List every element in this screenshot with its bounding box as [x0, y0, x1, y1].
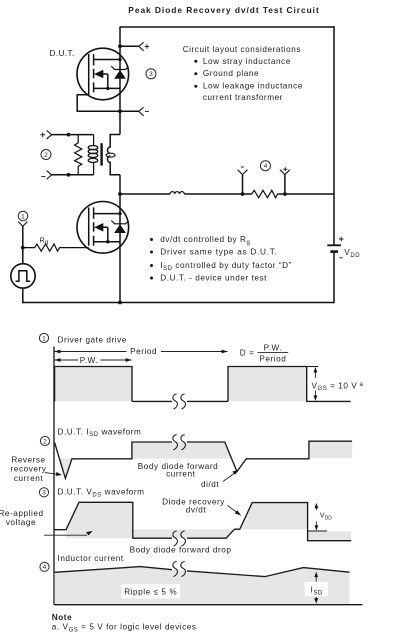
waveform 1 circled label: [39, 333, 48, 342]
label - of battery: [339, 257, 342, 259]
node dot gate drive: [21, 246, 25, 250]
wire T1 primary pass-through jog: [107, 135, 120, 175]
waveform 1 pulse 1 fill: [55, 367, 132, 402]
wire pulse generator to ground rail: [21, 288, 24, 303]
node dot Q2 source junction: [106, 240, 109, 243]
battery VDD plate short: [330, 250, 338, 253]
waveform 1 pulse 2 outline: [228, 367, 351, 402]
wire node2 minus lead: [52, 174, 94, 176]
node dot Q1 drain junction: [118, 58, 121, 61]
pulse generator glyph: [16, 271, 31, 282]
waveform 4 baseline: [54, 604, 362, 606]
waveform 1 pulse 2 fill: [228, 367, 307, 402]
label ISD box: [305, 582, 328, 596]
svg-text:2: 2: [43, 438, 47, 445]
node dot middle rail tee: [118, 192, 122, 196]
transistor Q2 body arrowhead: [94, 223, 103, 232]
transistor Q1 source connection: [94, 87, 120, 89]
node dot Q1 source junction: [106, 87, 109, 90]
svg-text:VDD: VDD: [344, 248, 360, 259]
svg-text:di/dt: di/dt: [201, 480, 219, 489]
svg-text:Re-applied: Re-applied: [0, 509, 44, 518]
node 2 circled label: [41, 150, 51, 160]
terminal arrowhead minus (node 2): [47, 171, 52, 180]
svg-text:Body diode forward drop: Body diode forward drop: [130, 546, 232, 555]
svg-text:ISD controlled by duty factor: ISD controlled by duty factor “D”: [160, 261, 292, 272]
wire middle rail: [120, 193, 334, 195]
svg-text:Period: Period: [130, 347, 157, 356]
svg-text:current transformer: current transformer: [203, 93, 283, 102]
waveform 3 circled label: [39, 488, 48, 497]
wire main vertical below transformer: [119, 175, 121, 303]
waveform 3 second plateau fill: [240, 503, 308, 530]
svg-text:Low leakage inductance: Low leakage inductance: [203, 82, 303, 91]
wire right rail upper: [333, 26, 335, 244]
node dot driver source on bottom rail: [118, 301, 122, 305]
terminal arrowhead plus (node 3): [139, 42, 144, 51]
waveform 4 trace: [55, 567, 350, 577]
waveform 2 trace: [55, 441, 353, 478]
diode D2 cathode bar: [111, 221, 128, 224]
svg-text:recovery: recovery: [11, 465, 47, 474]
transistor Q1 channel segments: [93, 54, 95, 92]
transistor Q1 body connection with arrow: [98, 74, 108, 88]
probe minus arrowhead: [238, 170, 248, 175]
probe minus branch of node 4: [242, 175, 244, 194]
transistor Q1 gate line: [88, 54, 90, 92]
svg-text:Rg: Rg: [40, 235, 49, 246]
label + of node 4 probe: [283, 167, 287, 171]
inductor T1 secondary winding leads: [93, 135, 95, 175]
resistor burden (vertical): [75, 135, 82, 175]
svg-text:Ripple ≤ 5 %: Ripple ≤ 5 %: [124, 587, 177, 596]
break marks waveform 3: [173, 531, 186, 546]
inductor L1 on middle rail: [170, 192, 184, 194]
svg-text:Peak Diode Recovery dv/dt Test: Peak Diode Recovery dv/dt Test Circuit: [128, 5, 319, 15]
break marks waveform 2: [173, 435, 186, 450]
svg-text:Driver same type as D.U.T.: Driver same type as D.U.T.: [160, 248, 277, 257]
waveform 2 main band fill: [132, 442, 231, 459]
break marks waveform 4: [173, 562, 186, 577]
break marks waveform 1: [173, 394, 186, 409]
label - of node 4 probe: [241, 166, 244, 168]
waveform 4 fill: [55, 567, 350, 605]
waveform 2 circled label: [40, 436, 49, 445]
transformer T1 core bar: [100, 143, 102, 165]
label + of node 3 terminal: [145, 44, 149, 48]
waveform 2 right block fill: [309, 441, 352, 458]
label + of node 2 terminal: [40, 132, 45, 137]
probe plus branch of node 4: [284, 175, 286, 194]
transistor Q1 drain connection: [94, 59, 120, 61]
wire gate drive vertical: [22, 226, 24, 263]
svg-text:VGS = 10 V a: VGS = 10 V a: [312, 381, 364, 392]
svg-text:Reverse: Reverse: [11, 455, 45, 464]
waveform 1 VGS reference tick: [307, 366, 319, 368]
svg-text:Period: Period: [259, 355, 286, 364]
svg-text:a. VGS = 5 V for logic level d: a. VGS = 5 V for logic level devices: [52, 623, 197, 634]
svg-text:D.U.T.: D.U.T.: [50, 49, 75, 58]
dimension Period: [54, 351, 228, 353]
node dot Q2 drain junction: [118, 212, 121, 215]
diode D1 body diode triangle: [114, 70, 126, 79]
svg-text:3: 3: [149, 71, 153, 78]
label ripple box: [122, 584, 181, 598]
terminal arrowhead plus (node 2): [47, 130, 52, 139]
svg-text:VDD: VDD: [320, 511, 332, 522]
wire bottom rail: [22, 302, 334, 304]
node 3 circled label: [146, 69, 156, 79]
svg-text:1: 1: [21, 213, 25, 220]
waveform 1 pulse 1 outline: [55, 367, 132, 402]
transistor Q1 DUT MOSFET body circle: [77, 48, 129, 100]
svg-text:1: 1: [42, 335, 46, 342]
svg-text:D.U.T. ISD waveform: D.U.T. ISD waveform: [58, 427, 142, 438]
svg-text:Low stray inductance: Low stray inductance: [203, 57, 291, 66]
label + of battery: [339, 237, 344, 242]
diode D2 body diode triangle: [114, 224, 126, 233]
node dot probe plus: [283, 192, 287, 196]
pulse generator source: [11, 264, 35, 288]
resistor Rg: [23, 244, 89, 251]
wire right rail lower: [333, 253, 335, 304]
transistor Q1 body arrowhead: [94, 70, 103, 79]
wire terminal-plus branch of node 3: [120, 45, 139, 47]
node dot gate-source tie: [118, 109, 122, 113]
wire node2 plus lead: [52, 134, 94, 136]
dimension ISD arrow: [315, 576, 317, 600]
svg-text:2: 2: [44, 152, 48, 159]
svg-text:dv/dt: dv/dt: [186, 505, 207, 514]
svg-text:Driver gate drive: Driver gate drive: [58, 336, 127, 345]
label - of node 3 terminal: [145, 110, 149, 112]
transistor Q2 body connection with arrow: [98, 227, 108, 241]
svg-text:P.W.: P.W.: [80, 356, 98, 365]
svg-text:current: current: [14, 474, 44, 483]
label - of node 2 terminal: [41, 176, 45, 178]
svg-text:Note: Note: [52, 613, 72, 622]
waveform 3 right band fill: [308, 531, 352, 541]
svg-text:Ground plane: Ground plane: [203, 69, 259, 78]
node dot 2-plus: [67, 133, 71, 137]
dimension VGS arrow: [314, 372, 316, 397]
inductor T1 secondary turns: [88, 146, 98, 163]
wire DUT gate-to-source tie: [77, 92, 119, 111]
svg-text:D.U.T. - device under test: D.U.T. - device under test: [160, 274, 267, 283]
transistor Q2 driver MOSFET body circle: [77, 202, 129, 254]
terminal arrowhead node 1: [18, 222, 27, 227]
node dot probe minus: [241, 192, 245, 196]
resistor sense (horizontal): [252, 190, 278, 197]
svg-text:Circuit layout considerations: Circuit layout considerations: [183, 45, 301, 54]
leader arrow reverse recovery: [45, 473, 58, 475]
svg-text:current: current: [166, 469, 196, 478]
node 4 circled label: [260, 161, 270, 171]
terminal arrowhead minus (node 3): [139, 107, 144, 116]
dimension P.W.: [54, 359, 132, 361]
waveform 3 left plateau fill: [66, 502, 133, 538]
svg-text:P.W.: P.W.: [264, 344, 282, 353]
svg-text:D.U.T. VDS waveform: D.U.T. VDS waveform: [58, 488, 145, 499]
waveform 4 circled label: [40, 562, 49, 571]
dimension VDD arrow: [315, 506, 317, 527]
battery VDD plate long: [327, 244, 341, 246]
svg-text:D =: D =: [240, 349, 255, 358]
node 1 circled label: [18, 211, 28, 221]
T1 primary single-turn loop: [106, 153, 115, 157]
note list bottom: [150, 238, 153, 241]
wire top rail: [120, 26, 335, 28]
svg-text:dv/dt controlled by Rg: dv/dt controlled by Rg: [160, 235, 250, 246]
node dot main-top: [118, 44, 122, 48]
waveform axis line: [53, 347, 55, 605]
node dot 2-minus: [67, 173, 71, 177]
svg-text:Inductor current: Inductor current: [58, 554, 124, 563]
svg-text:3: 3: [42, 490, 46, 497]
waveform 3 forward drop band fill: [133, 529, 235, 538]
waveform 1 low segment with break: [132, 400, 228, 402]
wire terminal-minus branch of node 3: [120, 110, 139, 112]
waveform 3 trace: [55, 502, 352, 540]
leader arrow re-applied voltage: [44, 534, 87, 536]
waveform 3 zero reference tick: [308, 530, 327, 532]
wire main vertical drain branch: [119, 26, 121, 134]
diode D1 cathode bar: [111, 66, 128, 69]
svg-text:4: 4: [43, 564, 47, 571]
svg-text:4: 4: [264, 163, 268, 170]
transistor Q2 drain connection: [94, 213, 120, 215]
transistor Q2 channel segments: [93, 207, 95, 245]
transistor Q2 gate line: [88, 207, 90, 245]
svg-text:voltage: voltage: [6, 518, 36, 527]
waveform 2 notch fill: [58, 459, 72, 478]
probe plus arrowhead: [280, 170, 290, 175]
transistor Q2 source connection: [94, 241, 120, 243]
